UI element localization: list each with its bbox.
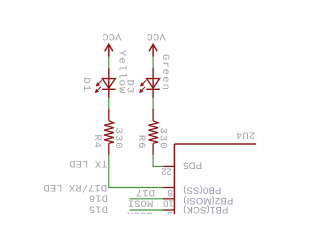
svg-text:SCLK: SCLK: [126, 208, 152, 214]
svg-text:330: 330: [156, 128, 168, 150]
wire: [153, 155, 163, 166]
VCC symbol 2: [149, 44, 157, 56]
svg-text:VCC: VCC: [147, 30, 166, 42]
wire: [108, 98, 110, 109]
wire: [109, 155, 163, 188]
pin 8 stub: [163, 187, 175, 189]
svg-text:D16: D16: [89, 192, 108, 204]
LED D1: [102, 68, 116, 98]
pin 22 stub: [163, 165, 174, 167]
pin 9 stub: [163, 209, 174, 211]
svg-text:PB1(SCK): PB1(SCK): [183, 205, 228, 214]
resistor R4: [104, 109, 114, 155]
IC U2 ATMEGA32U4 box: [174, 144, 256, 215]
svg-text:TX LED: TX LED: [69, 157, 107, 169]
svg-text:8: 8: [168, 187, 173, 198]
svg-text:D3: D3: [123, 80, 135, 95]
svg-text:9: 9: [167, 209, 172, 214]
wire: [152, 57, 154, 68]
svg-text:D1: D1: [80, 77, 92, 92]
svg-text:D17: D17: [136, 186, 155, 198]
svg-text:330: 330: [112, 128, 124, 150]
svg-text:R4: R4: [91, 134, 103, 149]
wire: [108, 57, 110, 68]
svg-text:22: 22: [161, 166, 172, 177]
pin 10 stub: [163, 198, 174, 200]
VCC symbol 1: [105, 44, 113, 56]
svg-text:D15: D15: [89, 203, 108, 214]
svg-text:MOSI: MOSI: [128, 197, 154, 209]
svg-text:VCC: VCC: [102, 30, 121, 42]
resistor R6: [149, 109, 159, 155]
svg-text:Green: Green: [159, 54, 171, 91]
wire pin 9: [130, 209, 164, 211]
LED D3: [146, 68, 160, 98]
svg-text:32U4: 32U4: [236, 129, 256, 141]
svg-text:R6: R6: [135, 135, 147, 150]
svg-text:10: 10: [163, 198, 174, 209]
svg-text:D17/RX LED: D17/RX LED: [43, 181, 107, 193]
wire pin 10: [130, 198, 164, 200]
svg-text:PD5: PD5: [183, 161, 202, 172]
wire: [152, 98, 154, 109]
svg-text:PB0(SS): PB0(SS): [183, 186, 221, 197]
